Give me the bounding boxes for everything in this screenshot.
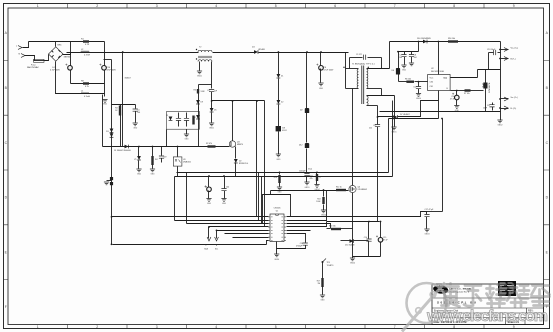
resistor R2 inline [208,145,216,147]
svg-text:R5: R5 [193,90,196,92]
wire rail [259,52,349,54]
svg-text:GND3: GND3 [425,234,430,236]
svg-text:104: 104 [226,187,229,189]
wire [112,104,136,106]
svg-text:D2: D2 [239,161,241,163]
terminal SCL [216,231,218,239]
svg-text:N: N [216,245,218,247]
capacitor C19 [161,147,163,156]
svg-text:C9: C9 [373,125,375,127]
svg-text:GND: GND [137,174,142,176]
svg-text:R3: R3 [115,108,117,110]
svg-text:D6: D6 [392,70,394,72]
resistor R5 [197,89,199,94]
wire [398,75,400,82]
ground [133,123,138,126]
wire gate [327,190,349,192]
svg-text:C: C [5,141,8,145]
svg-text:C2 472: C2 472 [356,54,362,56]
svg-text:GND: GND [133,128,138,130]
svg-text:GND1: GND1 [305,187,310,189]
svg-text:KBP206: KBP206 [64,57,71,59]
wire riser [258,173,260,221]
ground GND4 [274,254,279,257]
wire riser [388,119,390,173]
ground GND4 [321,210,326,213]
test point TP4 [322,261,324,263]
svg-text:GND1: GND1 [197,76,202,78]
svg-text:C14: C14 [364,237,367,239]
wire bus lower [175,176,393,178]
svg-text:4.7uF 400V: 4.7uF 400V [324,70,335,72]
wire [320,53,322,67]
ground [221,199,226,202]
svg-text:SCL: SCL [215,249,218,251]
wire riser [174,177,176,221]
svg-text:D9: D9 [201,102,203,104]
svg-text:GND: GND [207,203,212,205]
wire top-right rail [390,41,501,43]
transistor Q6 MOSFET [349,185,356,192]
svg-text:C13 10uF: C13 10uF [487,49,496,51]
capacitor C16 [303,243,308,245]
svg-text:U1: U1 [276,211,278,213]
svg-text:4: 4 [215,4,217,8]
ground GND3 [424,229,429,232]
svg-text:4.7mH: 4.7mH [84,96,90,98]
wire [287,191,327,221]
wire [306,53,308,109]
resistor R19 [316,173,318,175]
svg-text:C4: C4 [52,67,55,69]
resistor R17 [322,263,324,279]
capacitor C6 [319,66,324,71]
svg-text:4.7mH: 4.7mH [84,55,90,57]
diode D11 [341,240,350,242]
wire [389,42,391,69]
resistor R13 [323,191,325,197]
ground GND2 [497,120,502,123]
resistor R18 [192,116,194,125]
output terminal B-2 [501,108,509,110]
svg-text:R7 10k: R7 10k [464,93,470,95]
capacitor C11 [492,103,494,105]
svg-text:8: 8 [453,325,455,329]
svg-text:2: 2 [96,4,98,8]
wire [320,69,322,83]
wire [45,55,49,61]
ground [409,63,414,66]
ground GND4 [350,258,355,261]
transformer T1 core [362,66,364,105]
svg-text:R12 1k: R12 1k [336,187,342,189]
svg-text:D: D [5,196,8,200]
svg-text:5: 5 [275,325,277,329]
capacitor C7 [404,52,406,55]
svg-text:10uF: 10uF [483,108,488,110]
svg-text:D1 1N4007/1N4006L: D1 1N4007/1N4006L [114,150,131,152]
wire drain [478,69,501,71]
wire [63,53,71,55]
svg-text:GND: GND [402,70,407,72]
svg-text:TO/ATO: TO/ATO [327,264,334,267]
wire riser [264,101,266,227]
capacitor C17 [426,212,428,215]
wire [235,163,237,177]
svg-text:A: A [546,31,549,35]
wire [225,233,269,235]
wire [354,240,369,242]
svg-text:www.elecfans.com: www.elecfans.com [426,308,548,325]
svg-text:BR1: BR1 [58,45,63,47]
capacitor C13 [488,53,490,70]
zener D13 [196,115,200,119]
ground [401,65,406,68]
resistor R16 [448,40,458,42]
wire [186,130,188,135]
wire [353,256,381,258]
watermark chinese characters [442,284,550,307]
ground GND1 [304,182,309,185]
ground [136,169,141,172]
inductor L2 [81,51,89,52]
svg-text:STD4NK60Z: STD4NK60Z [358,189,368,191]
svg-text:Fuse: Fuse [31,65,36,67]
wire [56,62,71,94]
wire [352,89,354,186]
wire [199,84,212,86]
wire top rail [29,41,105,43]
svg-text:GND0: GND0 [416,98,421,100]
svg-text:B: B [447,88,449,90]
capacitor C10 [102,66,107,71]
svg-text:C: C [546,141,549,145]
resistor R3 [120,105,122,106]
diode D1 [125,145,129,149]
title block frame [432,284,544,325]
wire [104,42,106,95]
zener Z3 [169,117,173,121]
logo stamp block [498,281,516,296]
wire [352,193,354,257]
diode D12 [305,143,309,147]
wire [438,91,440,119]
wire node [212,100,265,102]
wire [278,105,280,127]
svg-text:D4: D4 [252,46,255,48]
wire [427,211,443,213]
wire [278,53,280,75]
output terminal Vo- [501,98,509,100]
zener Z2 [277,100,281,104]
bridge rectifier BR1 [49,47,64,61]
wire [198,85,200,147]
svg-text:C10: C10 [107,67,112,69]
svg-text:6: 6 [334,4,336,8]
wire bus U1 left pin1 [112,216,269,218]
wire [287,222,327,227]
ground GND1 [209,123,214,126]
ground [206,199,211,202]
wire [104,59,112,61]
wire [287,212,427,217]
svg-text:Z3: Z3 [166,115,168,117]
wire [187,223,269,225]
wire [287,224,331,229]
svg-text:GND4: GND4 [350,263,355,265]
svg-text:GND: GND [278,192,283,194]
wire [199,62,201,71]
output terminal B-7 [501,58,509,60]
wire [378,106,394,117]
diode D5 [210,108,214,112]
wire bus bottom [113,244,267,246]
wire [111,60,113,245]
svg-text:CS5305: CS5305 [274,208,281,210]
svg-text:T1 EE25(A16), TYP 1:0.1: T1 EE25(A16), TYP 1:0.1 [352,63,375,66]
svg-text:Vout: Vout [308,168,312,171]
svg-text:104: 104 [399,57,402,59]
svg-text:4.7k: 4.7k [85,86,89,88]
wire [102,95,104,147]
svg-text:Vo+ (5+): Vo+ (5+) [511,48,519,50]
svg-text:R17: R17 [317,281,320,283]
wire [278,132,280,155]
svg-text:GND: GND [319,88,324,90]
capacitor C3 [208,177,210,189]
diode D7 [394,115,398,119]
opto-isolator U3 [173,157,182,166]
wire [451,77,478,79]
wire [70,42,72,84]
svg-text:1/4W: 1/4W [201,91,205,93]
op-amp U2 SEC4521 [428,75,451,91]
wire [306,176,308,183]
wire [232,101,234,141]
AC input terminal N [21,54,25,58]
wire [327,228,331,230]
diode D3 [110,129,114,133]
svg-text:D: D [546,196,549,200]
wire [198,107,200,112]
diode D9 [196,100,200,104]
wire [442,119,444,212]
svg-text:UF5408: UF5408 [258,49,265,51]
resistor R1 [83,40,89,42]
ground [102,100,107,103]
svg-text:D2: D2 [300,110,303,112]
inductor L1 [71,93,105,95]
svg-text:R1: R1 [81,38,85,40]
wire riser [256,101,258,217]
border zone column ticks and numbers [68,4,485,329]
svg-text:7: 7 [394,325,396,329]
wire [23,42,29,48]
wire bus upper [177,172,389,174]
svg-text:R10: R10 [274,177,277,179]
svg-text:R14 56k: R14 56k [329,225,336,227]
ground [107,180,112,182]
wire [438,42,440,75]
svg-text:D12: D12 [299,145,304,147]
ground GND0 [416,94,421,97]
terminal SDA [208,227,210,239]
capacitor C15 [380,222,382,239]
svg-text:A: A [5,31,8,35]
snubber network box [167,112,200,130]
wire [276,242,278,255]
ground GND1 [394,96,396,127]
svg-text:L2: L2 [81,49,84,51]
svg-text:ZVN0645TA: ZVN0645TA [488,82,491,93]
svg-text:L: L [16,46,18,48]
svg-text:T2: T2 [199,47,202,49]
svg-text:3: 3 [156,4,158,8]
wire [175,220,269,222]
resistor R6 [399,81,407,83]
diode D2 [305,108,309,112]
fuse F1 [34,59,45,62]
svg-text:1nF: 1nF [214,91,218,93]
svg-text:1N4007: 1N4007 [125,78,131,80]
svg-text:VCC: VCC [430,78,434,80]
svg-text:GND: GND [151,174,156,176]
diode D8 [276,126,281,131]
resistor R7 [465,89,471,91]
svg-text:R4: R4 [155,159,157,161]
svg-text:F: F [5,305,7,309]
resistor R4 [152,147,154,157]
svg-text:47 uF: 47 uF [383,239,388,241]
ground [184,134,189,137]
svg-text:D11 1N4148: D11 1N4148 [345,244,354,246]
svg-text:DRA5106: DRA5106 [183,160,191,163]
wire [399,51,419,53]
svg-text:C12: C12 [413,87,416,89]
svg-text:SDA: SDA [204,248,208,251]
svg-text:222: 222 [369,127,372,129]
ground [277,187,282,190]
svg-text:GND4: GND4 [274,259,279,261]
svg-text:GND: GND [222,203,227,205]
svg-text:1: 1 [37,4,39,8]
svg-text:D3: D3 [106,131,108,133]
capacitor C4 [68,66,73,71]
svg-text:MMBT4: MMBT4 [237,144,243,146]
transistor Q2 [483,83,487,89]
zener Z5 [138,147,140,157]
transistor Q3 [229,141,235,147]
svg-text:8: 8 [453,4,455,8]
svg-text:D7 UF4007: D7 UF4007 [400,114,410,116]
zener D2 [234,159,238,163]
svg-text:C3: C3 [205,187,207,189]
svg-text:D10 1N4148WS: D10 1N4148WS [417,38,431,40]
svg-text:C6: C6 [324,67,327,69]
svg-text:GND: GND [321,300,326,302]
svg-text:C17 47 pF: C17 47 pF [425,209,435,211]
svg-text:4.7R: 4.7R [85,44,90,46]
wire [341,228,353,230]
svg-text:104: 104 [137,112,140,114]
svg-text:3: 3 [156,325,158,329]
op-amp U1 CS5305 [270,214,284,242]
svg-text:1: 1 [37,325,39,329]
wire [389,118,439,120]
resistor R14 [331,228,341,230]
svg-text:Z5: Z5 [134,159,136,161]
wire [485,89,487,112]
wire gate extension [271,190,327,192]
svg-text:TP4: TP4 [327,262,330,264]
AC input terminal L [18,46,22,50]
diode D4 [254,50,258,54]
wire [380,111,501,113]
wire [25,56,35,61]
capacitor C14 [368,222,370,239]
wire [217,230,269,232]
wire [211,92,213,109]
svg-text:4700pF: 4700pF [296,245,303,247]
wire rail [213,52,255,54]
svg-text:Vo- (2+): Vo- (2+) [511,97,519,99]
svg-text:GND1: GND1 [209,128,214,130]
svg-text:BZX84C10L: BZX84C10L [239,163,248,165]
capacitor C1 [135,105,137,109]
wire [306,149,308,173]
capacitor C12 [418,82,420,87]
svg-text:9: 9 [513,325,515,329]
company logo [433,285,448,293]
svg-text:B: B [546,86,549,90]
svg-text:1k: 1k [319,177,321,179]
wire [233,237,269,239]
svg-text:4: 4 [215,325,217,329]
border zone row ticks and letters [4,60,550,279]
svg-text:B: B [5,86,8,90]
svg-text:SEC4521 NGB: SEC4521 NGB [431,71,444,73]
svg-text:6: 6 [334,325,336,329]
resistor R8 [71,83,105,85]
ground [150,169,155,172]
wire [270,191,272,195]
svg-text:GAdj: GAdj [443,77,448,80]
svg-text:Z1: Z1 [281,76,284,78]
svg-text:B- (2-): B- (2-) [511,108,517,110]
wire [267,241,269,245]
svg-text:Z2: Z2 [281,102,284,104]
svg-text:7: 7 [394,4,396,8]
zener Z1 [277,74,281,78]
svg-text:ES1J: ES1J [282,130,286,132]
svg-text:R16 10k: R16 10k [448,38,455,40]
wire [287,234,306,243]
svg-text:3A8 250VAC: 3A8 250VAC [27,66,39,69]
wire [166,130,168,147]
resistor R12 [336,189,346,191]
svg-text:5: 5 [275,4,277,8]
transformer T2 common-mode choke [198,50,212,52]
ground [318,83,323,86]
wire [177,167,179,177]
capacitor C5 [209,90,214,92]
capacitor C9 [377,116,379,118]
svg-text:R2 47k: R2 47k [206,143,212,145]
capacitor C10 output [456,91,458,96]
svg-text:R6 10k: R6 10k [405,79,411,81]
wire [287,230,311,232]
wire [306,113,308,143]
